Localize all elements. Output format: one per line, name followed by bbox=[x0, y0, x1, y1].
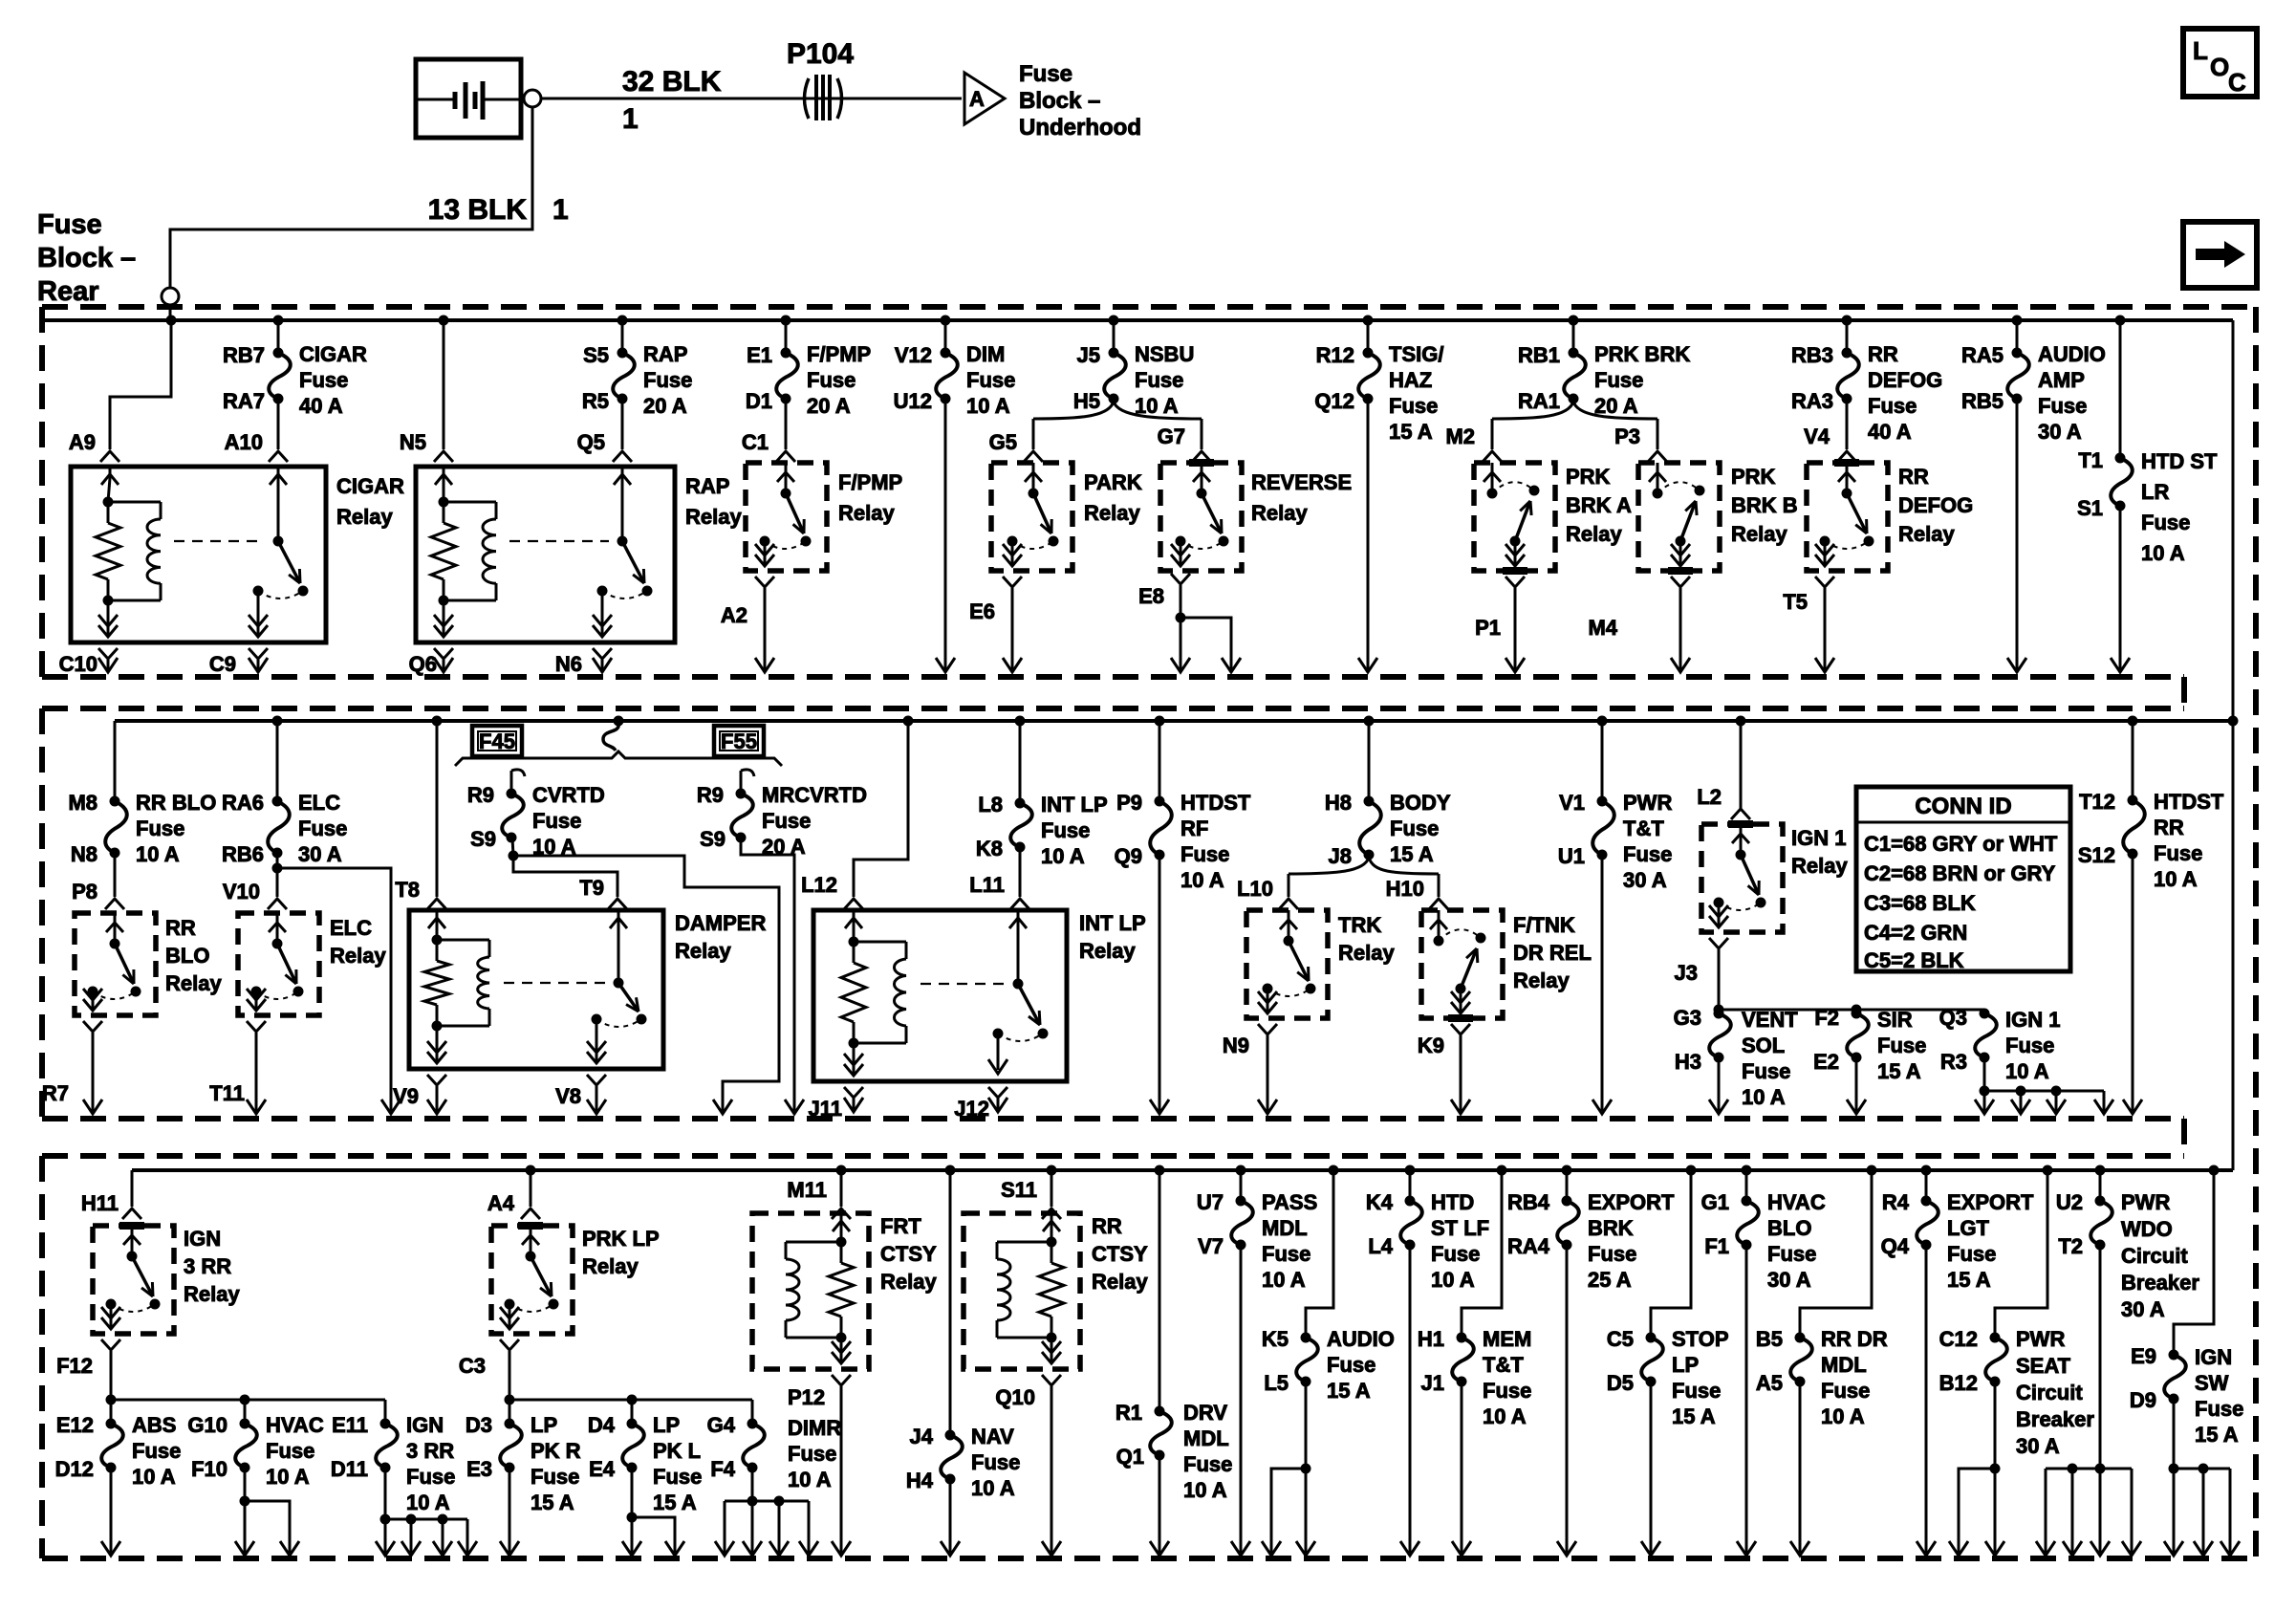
svg-text:E6: E6 bbox=[969, 599, 995, 623]
pin M2 bbox=[1445, 425, 1502, 462]
wire F12 manifold bbox=[111, 1395, 385, 1405]
pin N6 bbox=[555, 648, 612, 676]
svg-text:F4: F4 bbox=[710, 1457, 735, 1481]
svg-text:Fuse: Fuse bbox=[1877, 1034, 1926, 1057]
fuse AUDIO AMP RA5/RB5 30A bbox=[1961, 320, 2106, 444]
svg-text:PWR: PWR bbox=[2121, 1190, 2170, 1214]
svg-text:20 A: 20 A bbox=[807, 394, 851, 418]
svg-text:G3: G3 bbox=[1674, 1006, 1701, 1030]
svg-text:ABS: ABS bbox=[132, 1413, 176, 1437]
svg-text:R5: R5 bbox=[582, 389, 609, 413]
svg-text:M2: M2 bbox=[1445, 425, 1475, 448]
label CIGAR Relay bbox=[336, 474, 404, 529]
svg-text:PK R: PK R bbox=[531, 1439, 581, 1463]
svg-text:Fuse: Fuse bbox=[298, 816, 347, 840]
svg-text:PRK: PRK bbox=[1731, 465, 1776, 489]
fuse HTD ST LR T1/S1 10A bbox=[2077, 320, 2218, 565]
svg-text:10 A: 10 A bbox=[1742, 1085, 1786, 1109]
svg-text:D3: D3 bbox=[466, 1413, 492, 1437]
wire feed row2 to row3 bbox=[2232, 721, 2235, 1170]
svg-text:WDO: WDO bbox=[2121, 1217, 2173, 1241]
svg-text:Fuse: Fuse bbox=[136, 816, 184, 840]
wire NSBU split to G5 and G7 bbox=[1033, 402, 1202, 449]
svg-text:R12: R12 bbox=[1316, 343, 1354, 367]
relay TRK bbox=[1246, 910, 1328, 1018]
wire to T8 bbox=[436, 721, 439, 897]
label PRK BRK A Relay bbox=[1566, 465, 1632, 546]
wire to A9 bbox=[110, 320, 171, 449]
svg-text:HTDST: HTDST bbox=[2154, 790, 2224, 814]
svg-text:L: L bbox=[2193, 36, 2208, 65]
label F/PMP Relay bbox=[838, 470, 902, 525]
wire J3 manifold bbox=[1719, 1005, 1984, 1015]
wire AUDIO output branch bbox=[1262, 1382, 1315, 1556]
svg-text:C9: C9 bbox=[209, 652, 236, 676]
svg-text:A10: A10 bbox=[225, 430, 263, 454]
wire LP PK R output bbox=[500, 1468, 519, 1556]
svg-text:C: C bbox=[2228, 68, 2246, 97]
svg-text:DEFOG: DEFOG bbox=[1868, 368, 1942, 392]
pin P3 bbox=[1614, 425, 1667, 462]
pin A2 bbox=[721, 577, 774, 672]
svg-text:Relay: Relay bbox=[1338, 941, 1395, 965]
svg-text:Underhood: Underhood bbox=[1019, 115, 1141, 141]
svg-text:S11: S11 bbox=[1001, 1178, 1037, 1202]
svg-text:10 A: 10 A bbox=[2141, 541, 2185, 565]
svg-text:C3: C3 bbox=[459, 1354, 486, 1378]
svg-text:CIGAR: CIGAR bbox=[299, 342, 367, 366]
svg-text:Relay: Relay bbox=[1898, 522, 1955, 546]
svg-text:1: 1 bbox=[552, 194, 569, 226]
svg-text:10 A: 10 A bbox=[132, 1465, 176, 1489]
fuse AUDIO K5/L5 15A bbox=[1262, 1170, 1395, 1403]
svg-text:15 A: 15 A bbox=[653, 1491, 697, 1514]
svg-text:R1: R1 bbox=[1116, 1401, 1142, 1425]
CONN ID table bbox=[1856, 787, 2070, 972]
svg-text:Relay: Relay bbox=[1513, 969, 1570, 992]
svg-text:D9: D9 bbox=[2130, 1388, 2156, 1412]
svg-text:Relay: Relay bbox=[336, 505, 393, 529]
svg-text:40 A: 40 A bbox=[299, 394, 343, 418]
svg-text:BRK B: BRK B bbox=[1731, 493, 1798, 517]
svg-text:Relay: Relay bbox=[1084, 501, 1140, 525]
svg-text:Relay: Relay bbox=[1079, 939, 1136, 963]
svg-text:Fuse: Fuse bbox=[132, 1439, 181, 1463]
svg-text:G10: G10 bbox=[187, 1413, 227, 1437]
node CVRTD output junction bbox=[509, 851, 519, 861]
svg-text:DR REL: DR REL bbox=[1513, 941, 1592, 965]
svg-text:Fuse: Fuse bbox=[2141, 511, 2190, 534]
svg-text:K9: K9 bbox=[1418, 1034, 1444, 1057]
svg-text:3 RR: 3 RR bbox=[406, 1439, 454, 1463]
svg-text:HTD: HTD bbox=[1431, 1190, 1474, 1214]
svg-text:DIM: DIM bbox=[966, 342, 1005, 366]
fuse LP PK L D4/E4 15A bbox=[588, 1400, 702, 1514]
label ELC Relay bbox=[330, 916, 386, 968]
label PARK Relay bbox=[1084, 470, 1142, 525]
svg-text:G1: G1 bbox=[1701, 1190, 1729, 1214]
fuse TSIG/HAZ R12/Q12 15A bbox=[1314, 320, 1443, 444]
svg-text:RA1: RA1 bbox=[1518, 389, 1560, 413]
svg-text:F10: F10 bbox=[191, 1457, 227, 1481]
svg-text:Fuse: Fuse bbox=[1588, 1242, 1636, 1266]
svg-text:NSBU: NSBU bbox=[1135, 342, 1194, 366]
svg-text:Relay: Relay bbox=[1731, 522, 1787, 546]
relay RR BLO bbox=[75, 913, 156, 1015]
relay DAMPER bbox=[409, 910, 663, 1069]
fuse F/PMP E1/D1 20A bbox=[746, 320, 871, 449]
pin M11 bbox=[787, 1178, 851, 1219]
svg-text:10 A: 10 A bbox=[1041, 844, 1085, 868]
fuse ELC RA6/RB6 30A bbox=[222, 721, 347, 897]
svg-text:N8: N8 bbox=[71, 842, 97, 866]
wire 32 BLK bbox=[541, 98, 962, 100]
svg-text:IGN: IGN bbox=[2195, 1345, 2232, 1369]
svg-text:Fuse: Fuse bbox=[762, 809, 811, 833]
svg-text:RB4: RB4 bbox=[1507, 1190, 1550, 1214]
svg-text:O: O bbox=[2210, 53, 2229, 81]
svg-text:Relay: Relay bbox=[184, 1282, 240, 1306]
svg-text:Fuse: Fuse bbox=[1594, 368, 1643, 392]
fuse VENT SOL G3/H3 10A bbox=[1674, 1006, 1799, 1109]
svg-text:Fuse: Fuse bbox=[299, 368, 348, 392]
svg-text:RAP: RAP bbox=[643, 342, 687, 366]
svg-text:T&T: T&T bbox=[1623, 816, 1664, 840]
wire DIM fuse output bbox=[936, 399, 955, 672]
svg-text:13 BLK: 13 BLK bbox=[428, 194, 528, 226]
fuse block rear row 2 dashed border bbox=[42, 708, 2184, 1156]
svg-text:10 A: 10 A bbox=[971, 1476, 1015, 1500]
svg-text:15 A: 15 A bbox=[1327, 1379, 1371, 1403]
svg-text:Relay: Relay bbox=[838, 501, 895, 525]
svg-text:SW: SW bbox=[2195, 1371, 2229, 1395]
svg-text:LP: LP bbox=[531, 1413, 557, 1437]
relay PRK BRK B bbox=[1638, 463, 1720, 571]
svg-text:Relay: Relay bbox=[582, 1254, 639, 1278]
svg-text:HVAC: HVAC bbox=[1767, 1190, 1826, 1214]
svg-text:10 A: 10 A bbox=[788, 1468, 832, 1491]
svg-text:J1: J1 bbox=[1421, 1371, 1444, 1395]
svg-text:IGN 1: IGN 1 bbox=[2005, 1008, 2060, 1032]
relay IGN 3 RR bbox=[93, 1226, 174, 1334]
svg-text:Fuse: Fuse bbox=[1821, 1379, 1870, 1403]
wire PWR WDO manifold bbox=[2036, 1245, 2141, 1556]
label P104 bbox=[787, 38, 854, 70]
svg-text:G5: G5 bbox=[989, 430, 1017, 454]
fuse DIMR G4/F4 10A bbox=[707, 1385, 842, 1491]
svg-text:EXPORT: EXPORT bbox=[1947, 1190, 2034, 1214]
fuse block rear right dashed border bbox=[2253, 307, 2259, 1558]
row 3 bus wire bbox=[132, 1168, 2233, 1172]
wire MRCVRTD output to border bbox=[741, 838, 804, 1114]
svg-text:S12: S12 bbox=[2078, 843, 2115, 867]
svg-text:U1: U1 bbox=[1558, 844, 1585, 868]
svg-text:10 A: 10 A bbox=[406, 1491, 450, 1514]
svg-text:RA7: RA7 bbox=[223, 389, 265, 413]
svg-text:Fuse: Fuse bbox=[1135, 368, 1183, 392]
wire HTDST RF output bbox=[1150, 855, 1169, 1114]
fuse MRCVRTD R9/S9 20A bbox=[697, 770, 867, 859]
pin P8 bbox=[72, 880, 124, 909]
svg-text:MDL: MDL bbox=[1183, 1426, 1229, 1450]
row 1 bus junctions bbox=[166, 316, 2126, 326]
svg-text:Fuse: Fuse bbox=[406, 1465, 455, 1489]
svg-text:P8: P8 bbox=[72, 880, 97, 903]
svg-text:Rear: Rear bbox=[37, 276, 99, 307]
svg-text:E3: E3 bbox=[466, 1457, 492, 1481]
svg-text:Fuse: Fuse bbox=[531, 1465, 579, 1489]
svg-text:A2: A2 bbox=[721, 603, 747, 627]
wire NAV output bbox=[941, 1479, 960, 1556]
svg-text:Q1: Q1 bbox=[1116, 1445, 1144, 1469]
svg-text:Fuse: Fuse bbox=[2005, 1034, 2054, 1057]
wire HTD ST LR output bbox=[2111, 506, 2130, 672]
svg-text:F2: F2 bbox=[1814, 1006, 1839, 1030]
fuse HTD ST LF K4/L4 10A bbox=[1366, 1170, 1489, 1292]
wire LP PK L output branch bbox=[622, 1468, 684, 1556]
fuse RR DR MDL B5/A5 10A bbox=[1756, 1170, 1888, 1428]
fuse BODY H8/J8 15A bbox=[1325, 721, 1451, 868]
pin G7 bbox=[1158, 425, 1211, 462]
pin H11 bbox=[81, 1191, 141, 1219]
pin V9 bbox=[393, 1075, 446, 1114]
pin S11 bbox=[1001, 1178, 1061, 1219]
pin J12 bbox=[954, 1087, 1007, 1121]
svg-text:D1: D1 bbox=[746, 389, 772, 413]
label FRT CTSY Relay bbox=[880, 1214, 937, 1294]
svg-text:T5: T5 bbox=[1783, 590, 1808, 614]
svg-text:Fuse: Fuse bbox=[653, 1465, 702, 1489]
wire IGN 3 RR fuse manifold bbox=[376, 1468, 477, 1556]
pin N9 bbox=[1223, 1024, 1277, 1114]
svg-text:HTDST: HTDST bbox=[1180, 791, 1251, 815]
svg-text:AMP: AMP bbox=[2038, 368, 2085, 392]
svg-text:E1: E1 bbox=[747, 343, 772, 367]
svg-text:Fuse: Fuse bbox=[966, 368, 1015, 392]
svg-text:Q3: Q3 bbox=[1939, 1006, 1967, 1030]
svg-text:PRK BRK: PRK BRK bbox=[1594, 342, 1690, 366]
wire L12 jog bbox=[854, 721, 908, 897]
row 2 bus wire bbox=[115, 719, 2233, 723]
svg-text:Relay: Relay bbox=[330, 944, 386, 968]
svg-text:RR: RR bbox=[1092, 1214, 1122, 1238]
svg-text:30 A: 30 A bbox=[298, 842, 342, 866]
pin H10 bbox=[1386, 877, 1448, 909]
wire MEM T&T output bbox=[1452, 1382, 1471, 1556]
svg-text:Fuse: Fuse bbox=[2195, 1397, 2243, 1421]
fusible link hook bbox=[603, 724, 618, 751]
pin Q10 output wire bbox=[995, 1375, 1061, 1556]
svg-text:H8: H8 bbox=[1325, 791, 1352, 815]
svg-text:EXPORT: EXPORT bbox=[1588, 1190, 1675, 1214]
fuse PWR T&T V1/U1 30A bbox=[1558, 721, 1673, 892]
svg-text:Fuse: Fuse bbox=[1041, 818, 1090, 842]
svg-text:L10: L10 bbox=[1237, 877, 1273, 901]
svg-text:Fuse: Fuse bbox=[1742, 1059, 1790, 1083]
wire to M11 bbox=[840, 1170, 843, 1207]
svg-text:F/TNK: F/TNK bbox=[1513, 913, 1575, 937]
pin F12 bbox=[56, 1339, 120, 1400]
fuse CIGAR RB7/RA7 40A bbox=[223, 320, 367, 449]
svg-text:A4: A4 bbox=[487, 1191, 515, 1215]
svg-text:AUDIO: AUDIO bbox=[1327, 1327, 1395, 1351]
svg-text:30 A: 30 A bbox=[1767, 1268, 1811, 1292]
label RR CTSY Relay bbox=[1092, 1214, 1148, 1294]
svg-text:BRK: BRK bbox=[1588, 1216, 1634, 1240]
svg-text:E11: E11 bbox=[332, 1413, 368, 1437]
svg-text:R4: R4 bbox=[1882, 1190, 1910, 1214]
wire to A4 bbox=[530, 1170, 532, 1207]
svg-text:Fuse: Fuse bbox=[1483, 1379, 1531, 1403]
svg-text:10 A: 10 A bbox=[1483, 1404, 1527, 1428]
pin L10 bbox=[1237, 877, 1298, 909]
fuse INT LP L8/K8 10A bbox=[976, 721, 1108, 897]
svg-text:Relay: Relay bbox=[1251, 501, 1308, 525]
svg-text:15 A: 15 A bbox=[531, 1491, 574, 1514]
wire STOP LP output bbox=[1641, 1382, 1660, 1556]
svg-text:15 A: 15 A bbox=[1877, 1059, 1921, 1083]
svg-text:A5: A5 bbox=[1756, 1371, 1783, 1395]
svg-text:Relay: Relay bbox=[1092, 1270, 1148, 1294]
svg-text:L5: L5 bbox=[1264, 1371, 1289, 1395]
svg-text:DRV: DRV bbox=[1183, 1401, 1227, 1425]
svg-text:FRT: FRT bbox=[880, 1214, 921, 1238]
svg-text:Fuse: Fuse bbox=[1327, 1353, 1375, 1377]
wire EXPORT LGT output bbox=[1917, 1245, 1936, 1556]
svg-text:RB7: RB7 bbox=[223, 343, 265, 367]
pin C1 bbox=[742, 430, 795, 462]
svg-text:Fuse: Fuse bbox=[1389, 394, 1438, 418]
svg-text:10 A: 10 A bbox=[1262, 1268, 1306, 1292]
svg-text:Fuse: Fuse bbox=[532, 809, 581, 833]
pin N5 bbox=[400, 430, 453, 462]
svg-text:10 A: 10 A bbox=[2154, 867, 2198, 891]
wire TSIG/HAZ output bbox=[1358, 399, 1377, 672]
relay INT LP bbox=[813, 910, 1067, 1081]
svg-text:AUDIO: AUDIO bbox=[2038, 342, 2106, 366]
svg-text:T2: T2 bbox=[2058, 1234, 2083, 1258]
svg-text:32 BLK: 32 BLK bbox=[622, 66, 722, 98]
svg-text:G7: G7 bbox=[1158, 425, 1185, 448]
relay RAP bbox=[416, 467, 675, 642]
svg-text:10 A: 10 A bbox=[1180, 868, 1224, 892]
label F55 bbox=[714, 726, 764, 756]
svg-text:REVERSE: REVERSE bbox=[1251, 470, 1352, 494]
svg-text:30 A: 30 A bbox=[1623, 868, 1667, 892]
fuse ABS E12/D12 10A bbox=[55, 1400, 182, 1489]
svg-text:U12: U12 bbox=[894, 389, 932, 413]
svg-text:F55: F55 bbox=[721, 729, 757, 753]
svg-text:Fuse: Fuse bbox=[807, 368, 856, 392]
svg-text:15 A: 15 A bbox=[1389, 420, 1433, 444]
relay PRK LP bbox=[491, 1226, 573, 1334]
pin C9 bbox=[209, 648, 268, 676]
pin E8 bbox=[1138, 574, 1190, 618]
svg-text:IGN: IGN bbox=[406, 1413, 444, 1437]
wire to S11 bbox=[1051, 1170, 1053, 1207]
svg-text:RR: RR bbox=[165, 916, 196, 940]
svg-text:BLO: BLO bbox=[1767, 1216, 1811, 1240]
svg-text:Fuse: Fuse bbox=[1180, 842, 1229, 866]
svg-text:20 A: 20 A bbox=[643, 394, 687, 418]
svg-text:U2: U2 bbox=[2056, 1190, 2083, 1214]
svg-text:V7: V7 bbox=[1198, 1234, 1224, 1258]
wire HVAC output branch bbox=[235, 1468, 299, 1556]
svg-text:IGN 1: IGN 1 bbox=[1791, 826, 1846, 850]
node entry terminal to fuse block rear bbox=[162, 288, 179, 320]
fuse EXPORT LGT R4/Q4 15A bbox=[1881, 1170, 2034, 1292]
node C3 junction bbox=[505, 1395, 515, 1405]
svg-text:H11: H11 bbox=[81, 1191, 119, 1215]
svg-text:T&T: T&T bbox=[1483, 1353, 1524, 1377]
wire HVAC BLO output bbox=[1737, 1245, 1756, 1556]
row 3 bus junctions bbox=[526, 1165, 2220, 1176]
wire HTDST RR output bbox=[2123, 854, 2142, 1114]
svg-text:D5: D5 bbox=[1607, 1371, 1634, 1395]
svg-text:Fuse: Fuse bbox=[1767, 1242, 1816, 1266]
fuse LP PK R D3/E3 15A bbox=[466, 1400, 581, 1514]
svg-text:15 A: 15 A bbox=[1390, 842, 1434, 866]
pin P12 output wire bbox=[832, 1375, 851, 1556]
svg-text:RR: RR bbox=[2154, 816, 2184, 839]
svg-text:RR BLO: RR BLO bbox=[136, 791, 216, 815]
wire to H11 bbox=[131, 1170, 134, 1207]
svg-text:C1: C1 bbox=[742, 430, 769, 454]
node F12 junction bbox=[106, 1395, 117, 1405]
svg-text:RR: RR bbox=[1868, 342, 1898, 366]
svg-text:RAP: RAP bbox=[685, 474, 729, 498]
svg-text:RA5: RA5 bbox=[1961, 343, 2004, 367]
svg-text:Relay: Relay bbox=[685, 505, 742, 529]
svg-text:RB6: RB6 bbox=[222, 842, 264, 866]
svg-text:LR: LR bbox=[2141, 480, 2169, 504]
svg-text:Fuse: Fuse bbox=[971, 1450, 1020, 1474]
svg-text:ST LF: ST LF bbox=[1431, 1216, 1489, 1240]
svg-text:C10: C10 bbox=[59, 652, 97, 676]
svg-text:15 A: 15 A bbox=[2195, 1423, 2239, 1447]
relay IGN 1 bbox=[1701, 824, 1783, 932]
svg-text:PWR: PWR bbox=[2016, 1327, 2065, 1351]
label PRK LP Relay bbox=[582, 1227, 660, 1278]
svg-text:10 A: 10 A bbox=[1821, 1404, 1865, 1428]
fuse SIR F2/E2 15A bbox=[1813, 1006, 1926, 1083]
svg-text:J11: J11 bbox=[809, 1097, 843, 1121]
label RAP Relay bbox=[685, 474, 742, 529]
label 13 BLK circuit 1 bbox=[428, 194, 569, 226]
svg-text:3 RR: 3 RR bbox=[184, 1254, 231, 1278]
forward arrow box bbox=[2183, 222, 2257, 288]
svg-text:H5: H5 bbox=[1073, 389, 1100, 413]
svg-text:Circuit: Circuit bbox=[2016, 1381, 2083, 1404]
pin T5 bbox=[1783, 577, 1834, 672]
svg-text:V4: V4 bbox=[1804, 425, 1830, 448]
svg-text:PASS: PASS bbox=[1262, 1190, 1317, 1214]
battery B+ bbox=[416, 59, 521, 138]
svg-text:J12: J12 bbox=[954, 1097, 989, 1121]
svg-text:V10: V10 bbox=[223, 880, 260, 903]
svg-text:V8: V8 bbox=[555, 1084, 581, 1108]
wire HTD ST LF output bbox=[1400, 1245, 1419, 1556]
svg-text:M11: M11 bbox=[787, 1178, 827, 1202]
fuse IGN 3 RR E11/D11 10A bbox=[331, 1400, 456, 1514]
svg-text:Relay: Relay bbox=[880, 1270, 937, 1294]
svg-text:R9: R9 bbox=[467, 783, 494, 807]
svg-text:TSIG/: TSIG/ bbox=[1389, 342, 1443, 366]
label RR BLO Relay bbox=[165, 916, 222, 995]
svg-text:RA3: RA3 bbox=[1791, 389, 1833, 413]
svg-text:25 A: 25 A bbox=[1588, 1268, 1632, 1292]
svg-text:F/PMP: F/PMP bbox=[807, 342, 871, 366]
